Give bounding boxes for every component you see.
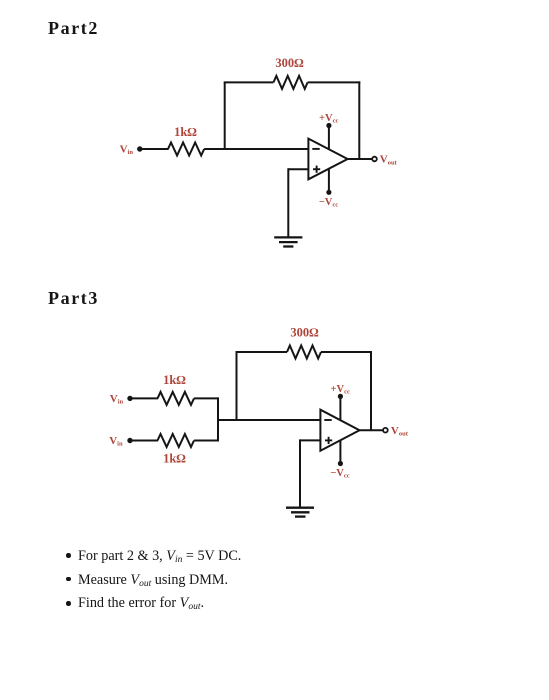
bullet 3 text xyxy=(78,595,204,612)
node Vout (Part2 output terminal) xyxy=(372,154,397,167)
wire non-inverting input to ground (vertical) xyxy=(287,168,289,237)
op-amp U2 plus sign xyxy=(325,437,332,444)
wire Vin2 to R4 xyxy=(130,440,158,442)
svg-text:Vout: Vout xyxy=(380,154,398,167)
wire R1 to op-amp inverting input xyxy=(204,148,308,150)
op-amp U1 triangle xyxy=(308,139,347,180)
wire R5 to right vertical xyxy=(321,351,372,353)
svg-text:Vin: Vin xyxy=(120,144,134,157)
op-amp U1 plus sign xyxy=(313,166,320,173)
ground (Part2) xyxy=(274,237,302,246)
bullet 3 marker xyxy=(66,601,71,606)
wire R4 to junction xyxy=(194,440,219,442)
resistor R3 1k (top) xyxy=(158,373,195,405)
wire non-inverting input to ground vertical (Part3) xyxy=(299,439,301,507)
resistor R2 300 (feedback) xyxy=(274,56,308,89)
svg-text:−Vcc: −Vcc xyxy=(319,197,338,209)
wire R2 to right vertical xyxy=(308,81,361,83)
wire junction vertical (node B) xyxy=(217,397,219,441)
svg-text:1kΩ: 1kΩ xyxy=(174,125,197,139)
wire Vin1 to R3 xyxy=(130,397,158,399)
wire feedback right vertical to output (Part3) xyxy=(370,351,372,430)
svg-text:+Vcc: +Vcc xyxy=(319,113,338,125)
wire non-inverting input to ground horizontal (Part3) xyxy=(300,439,320,441)
svg-text:Vout: Vout xyxy=(391,425,409,438)
ground (Part3) xyxy=(286,508,314,517)
wire Vin to R1 xyxy=(140,148,169,150)
wire op-amp output (Part3) xyxy=(360,429,384,431)
wire non-inverting input to ground (horizontal) xyxy=(288,168,308,170)
svg-text:300Ω: 300Ω xyxy=(290,326,319,340)
wire top left to R2 xyxy=(224,81,274,83)
wire op-amp output xyxy=(348,158,373,160)
wire feedback right vertical to output xyxy=(358,81,360,159)
bullet 2 text xyxy=(78,572,228,589)
wire R3 to junction xyxy=(194,397,219,399)
power +Vcc (Part3) xyxy=(331,384,350,420)
wire feedback left vertical (node A junction) xyxy=(224,82,226,150)
resistor R1 1k xyxy=(168,125,204,156)
node Vout (Part3 output terminal) xyxy=(383,425,409,438)
wire feedback left vertical (Part3) xyxy=(236,352,238,421)
resistor R4 1k (bottom) xyxy=(158,434,195,465)
op-amp U2 minus sign xyxy=(324,419,331,421)
svg-text:1kΩ: 1kΩ xyxy=(163,451,186,465)
node Vin1 (Part3 top input terminal) xyxy=(110,393,133,406)
node Vin2 (Part3 bottom input terminal) xyxy=(109,435,133,448)
svg-text:+Vcc: +Vcc xyxy=(331,384,350,396)
op-amp U1 minus sign xyxy=(312,148,319,150)
power -Vcc (Part3) xyxy=(330,440,349,480)
svg-text:−Vcc: −Vcc xyxy=(330,468,349,480)
bullet 2 marker xyxy=(66,577,71,582)
heading Part2 xyxy=(48,18,99,39)
heading Part3 xyxy=(48,288,99,309)
op-amp U2 triangle xyxy=(320,410,359,451)
power +Vcc (Part2) xyxy=(319,113,338,149)
svg-text:300Ω: 300Ω xyxy=(275,56,304,70)
node Vin (Part2 input terminal) xyxy=(120,144,143,157)
svg-text:1kΩ: 1kΩ xyxy=(163,373,186,387)
wire top left to R5 xyxy=(236,351,288,353)
svg-text:Vin: Vin xyxy=(110,393,124,406)
bullet 1 text xyxy=(78,548,241,565)
power -Vcc (Part2) xyxy=(319,169,338,209)
svg-text:Vin: Vin xyxy=(109,435,123,448)
wire junction to op-amp inverting input xyxy=(218,419,320,421)
resistor R5 300 (feedback Part3) xyxy=(287,326,321,359)
bullet 1 marker xyxy=(66,553,71,558)
